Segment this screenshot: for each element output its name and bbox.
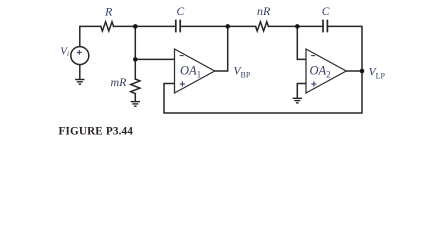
svg-text:C: C bbox=[322, 6, 330, 18]
wire: mR to ground bbox=[134, 94, 136, 102]
capacitor C1 bbox=[176, 21, 180, 32]
svg-text:FIGURE P3.44: FIGURE P3.44 bbox=[59, 126, 134, 138]
resistor R bbox=[101, 22, 114, 31]
source Vi circle bbox=[71, 47, 89, 65]
wire: VLP node down, bottom feedback, up to OA1 + input bbox=[164, 71, 362, 113]
wire: OA2 + input to ground bbox=[297, 84, 306, 98]
node VLP junction dot bbox=[360, 69, 365, 74]
op-amp OA2 triangle bbox=[306, 49, 346, 93]
svg-text:VBP: VBP bbox=[234, 65, 251, 79]
wire: node D down to OA2 - input bbox=[297, 26, 306, 59]
node D junction dot bbox=[295, 24, 300, 29]
svg-text:Vi: Vi bbox=[60, 46, 69, 59]
resistor nR bbox=[256, 22, 269, 31]
capacitor C2 bbox=[323, 21, 327, 32]
node at OA1 minus junction bbox=[133, 57, 138, 62]
plus sign inside Vi bbox=[77, 50, 82, 55]
svg-text:R: R bbox=[104, 5, 113, 19]
node B junction dot bbox=[225, 24, 230, 29]
wire: node A down through junction to mR bbox=[134, 26, 136, 79]
wire: C2 to right corner, down to VLP node bbox=[327, 26, 362, 71]
wire: junction to OA1 - input bbox=[135, 58, 174, 60]
op-amp OA1 triangle bbox=[175, 49, 215, 93]
wire: C1 to nR bbox=[180, 25, 255, 27]
svg-text:mR: mR bbox=[111, 75, 128, 89]
resistor mR bbox=[131, 79, 140, 94]
ground below mR bbox=[131, 102, 140, 107]
OA2 plus sign bbox=[311, 81, 316, 86]
wire: OA2 output to VLP node bbox=[346, 70, 362, 72]
OA2 minus sign bbox=[311, 55, 315, 57]
wire: nR to capacitor C2 bbox=[268, 25, 323, 27]
OA1 plus sign bbox=[180, 81, 185, 86]
wire: Vi top to R bbox=[80, 26, 101, 46]
wire: Vi source bottom to ground bbox=[79, 65, 81, 79]
ground below OA2 plus input bbox=[293, 98, 302, 103]
OA1 minus sign bbox=[180, 55, 184, 57]
wire: OA1 output to VBP corner up to node B bbox=[215, 26, 228, 71]
svg-text:VLP: VLP bbox=[369, 67, 386, 81]
svg-text:nR: nR bbox=[257, 4, 271, 18]
wire: R to capacitor C1 bbox=[114, 25, 176, 27]
svg-text:C: C bbox=[177, 6, 185, 18]
ground below Vi bbox=[75, 80, 84, 85]
node A junction dot bbox=[133, 24, 138, 29]
